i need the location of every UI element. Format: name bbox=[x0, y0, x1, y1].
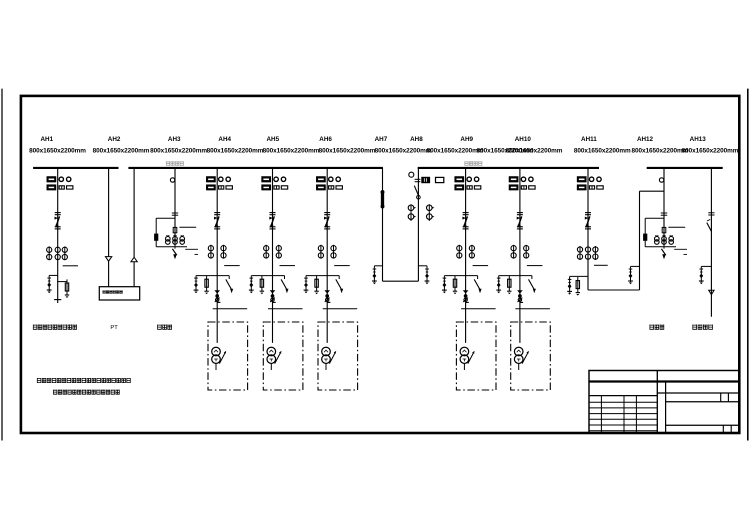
svg-text:800x1650x2200mm: 800x1650x2200mm bbox=[682, 147, 739, 154]
arrester AH1 bbox=[47, 277, 51, 279]
sheet edge left bbox=[1, 89, 3, 441]
panel AH10 feeder wire bbox=[519, 168, 521, 343]
meters AH4 bbox=[207, 177, 216, 182]
PT left fuse bbox=[644, 234, 647, 240]
branch node AH10 bbox=[499, 275, 532, 277]
arrester AH8 bbox=[425, 268, 429, 270]
CT AH1 column a bbox=[48, 246, 50, 260]
panel AH2 right wire bbox=[133, 168, 135, 257]
meters AH1 bbox=[47, 177, 56, 182]
CT AH8 left bbox=[410, 204, 412, 221]
PT label line bbox=[179, 226, 196, 228]
link wire AH11 to AH12 bbox=[588, 289, 640, 291]
lamp AH8 bbox=[409, 172, 414, 177]
label line AH11 bbox=[594, 264, 608, 266]
panel AH5 feeder wire bbox=[272, 168, 274, 343]
transformer AH9 bbox=[460, 347, 469, 356]
PT main fuse bbox=[173, 227, 177, 232]
bus link AH7 bbox=[381, 192, 383, 207]
fuse AH10 bbox=[508, 276, 510, 292]
PT left branch wire bbox=[645, 217, 664, 219]
transformer box AH4 bbox=[208, 322, 248, 390]
PT left fuse bbox=[155, 234, 158, 240]
cable label line AH4 bbox=[213, 308, 248, 310]
branch node AH9 bbox=[444, 275, 477, 277]
svg-text:AH13: AH13 bbox=[690, 136, 707, 143]
svg-text:800x1650x2200mm: 800x1650x2200mm bbox=[319, 147, 376, 154]
disconnect ticks AH13 bbox=[708, 212, 714, 214]
transformer box AH9 bbox=[456, 322, 496, 390]
CT AH11 column c bbox=[594, 246, 596, 260]
panel AH9 feeder wire bbox=[465, 168, 467, 343]
arrester AH9 bbox=[443, 276, 445, 278]
fuse AH11 bbox=[577, 277, 579, 293]
junction AH9 bbox=[464, 295, 467, 298]
CT AH6 left bbox=[320, 245, 322, 259]
cable head AH9 bbox=[463, 290, 469, 293]
meters AH5 bbox=[262, 177, 271, 182]
meters AH9 bbox=[455, 177, 464, 182]
PT bottom wire bbox=[156, 246, 187, 248]
title block narrow column bbox=[665, 382, 667, 434]
CT AH10 left bbox=[513, 245, 515, 259]
arrester AH6 bbox=[305, 276, 307, 278]
earth switch AH9 bbox=[477, 276, 479, 279]
svg-text:AH9: AH9 bbox=[460, 136, 473, 143]
panel AH3 main wire bbox=[174, 168, 176, 245]
cable terminal AH6 bbox=[326, 298, 329, 301]
disconnect ticks AH8 bbox=[415, 178, 421, 180]
junction AH4 bbox=[216, 295, 219, 298]
transformer AH5 bbox=[267, 347, 276, 356]
svg-text:800x1650x2200mm: 800x1650x2200mm bbox=[93, 147, 150, 154]
title block right cells bottom bbox=[722, 425, 724, 433]
meter AH8 b bbox=[436, 177, 444, 182]
label line AH1 bbox=[63, 265, 78, 267]
cable head AH6 bbox=[324, 290, 330, 293]
incoming label AH1 bbox=[33, 325, 77, 330]
junction AH7 bottom bbox=[381, 205, 384, 208]
cable terminal AH10 bbox=[518, 298, 521, 301]
svg-text:800x1650x2200mm: 800x1650x2200mm bbox=[150, 147, 207, 154]
PT earth switch bbox=[663, 245, 665, 249]
svg-text:AH4: AH4 bbox=[218, 136, 231, 143]
CT AH5 right bbox=[278, 245, 280, 259]
panel AH7 riser wire bbox=[382, 168, 384, 281]
label line AH10 bbox=[527, 265, 543, 267]
PT disconnect ticks bbox=[172, 212, 178, 214]
metering box AH2 bbox=[99, 287, 139, 300]
switch blade AH8 bbox=[414, 186, 418, 196]
earth switch AH4 bbox=[228, 276, 230, 279]
label line AH6 bbox=[334, 265, 350, 267]
PT earth marks bbox=[674, 248, 687, 250]
svg-text:AH12: AH12 bbox=[637, 136, 654, 143]
title block right row line 1 bbox=[657, 392, 739, 394]
panel AH4 feeder wire bbox=[216, 168, 218, 343]
note line 1 bbox=[37, 378, 130, 383]
PT coils bbox=[655, 237, 660, 242]
CT AH5 left bbox=[265, 245, 267, 259]
note line 2 bbox=[53, 390, 119, 395]
panel AH1 main wire bbox=[57, 168, 59, 303]
drawing frame bbox=[21, 96, 739, 433]
meters AH10 bbox=[509, 177, 518, 182]
svg-text:800x1650x2200mm: 800x1650x2200mm bbox=[263, 147, 320, 154]
svg-text:AH8: AH8 bbox=[410, 136, 423, 143]
branch node AH6 bbox=[306, 275, 339, 277]
fuse branch AH1 bbox=[58, 281, 67, 283]
CT AH10 right bbox=[525, 245, 527, 259]
title block vertical divider bbox=[656, 371, 658, 434]
plug contact AH2 right bbox=[131, 257, 137, 262]
svg-text:AH5: AH5 bbox=[266, 136, 279, 143]
arrester AH10 bbox=[498, 276, 500, 278]
svg-text:800x1650x2200mm: 800x1650x2200mm bbox=[427, 147, 484, 154]
transformer box AH10 bbox=[511, 322, 551, 390]
fuse AH9 bbox=[454, 276, 456, 292]
svg-text:800x1650x2200mm: 800x1650x2200mm bbox=[207, 147, 264, 154]
label line AH5 bbox=[280, 265, 296, 267]
label AH13 bbox=[693, 325, 713, 330]
title block outer bbox=[589, 371, 739, 434]
arrester AH5 bbox=[250, 276, 252, 278]
svg-text:AH1: AH1 bbox=[40, 136, 53, 143]
svg-text:PT: PT bbox=[110, 325, 118, 331]
busbar section I part b bbox=[128, 167, 383, 169]
stub AH8 bbox=[418, 265, 427, 267]
earth switch AH6 bbox=[338, 276, 340, 279]
CT AH1 column c bbox=[64, 246, 66, 260]
branch wire AH1 bbox=[49, 274, 58, 276]
meters AH11 bbox=[577, 177, 586, 182]
title block right cells top bbox=[720, 393, 722, 402]
breaker AH10 bbox=[517, 212, 523, 214]
fuse AH5 bbox=[261, 276, 263, 292]
CT AH6 right bbox=[333, 245, 335, 259]
stub AH7 bbox=[374, 265, 382, 267]
earth switch AH10 bbox=[531, 276, 533, 279]
fuse AH4 bbox=[206, 276, 208, 292]
CT AH9 left bbox=[458, 245, 460, 259]
PT disconnect ticks bbox=[661, 212, 667, 214]
breaker AH11 bbox=[585, 212, 591, 214]
metering box text AH2 bbox=[103, 290, 123, 293]
branch node AH5 bbox=[251, 275, 284, 277]
title block left table rows bbox=[589, 401, 657, 403]
earth switch AH5 bbox=[284, 276, 286, 279]
CT AH4 right bbox=[223, 245, 225, 259]
tie wire AH7-AH8 bbox=[383, 280, 419, 282]
svg-text:AH2: AH2 bbox=[108, 136, 121, 143]
earth ball AH3 bbox=[170, 178, 174, 182]
cable head AH13 bbox=[709, 290, 714, 294]
cable label line AH5 bbox=[268, 308, 303, 310]
bus label 1 (gray) bbox=[166, 161, 183, 165]
title block left table columns bbox=[600, 396, 602, 433]
junction AH5 bbox=[271, 295, 274, 298]
label line AH9 bbox=[473, 265, 489, 267]
CT AH1 column b bbox=[55, 247, 60, 252]
cable head AH5 bbox=[270, 290, 276, 293]
label AH3 bbox=[157, 325, 171, 330]
svg-text:800x1650x2200mm: 800x1650x2200mm bbox=[631, 147, 688, 154]
PT left branch wire bbox=[156, 217, 175, 219]
arrester AH13 bbox=[700, 268, 704, 270]
svg-text:AH11: AH11 bbox=[581, 136, 597, 143]
title block right row line 3 bbox=[666, 424, 740, 426]
busbar section I part a bbox=[33, 167, 118, 169]
title block left table top bbox=[589, 395, 657, 397]
svg-text:800x1650x2200mm: 800x1650x2200mm bbox=[375, 147, 432, 154]
svg-text:AH10: AH10 bbox=[515, 136, 532, 143]
meter AH8 a bbox=[422, 177, 430, 182]
PT main fuse bbox=[662, 227, 666, 232]
arrester AH12 riser bbox=[629, 268, 633, 270]
CT AH4 left bbox=[210, 245, 212, 259]
breaker AH1 bbox=[55, 212, 61, 214]
panel AH11 main wire bbox=[587, 168, 589, 290]
earth ball AH12 bbox=[659, 178, 663, 182]
cable head AH10 bbox=[517, 290, 523, 293]
junction AH6 bbox=[326, 295, 329, 298]
stub AH13 bbox=[701, 265, 711, 267]
arrester AH4 bbox=[195, 276, 197, 278]
breaker AH4 bbox=[214, 212, 220, 214]
PT label line bbox=[668, 226, 685, 228]
CT AH11 column a bbox=[579, 246, 581, 260]
breaker AH9 bbox=[463, 212, 469, 214]
PT bottom wire bbox=[645, 246, 676, 248]
panel AH2 left wire bbox=[108, 168, 110, 257]
cable label line AH9 bbox=[461, 308, 496, 310]
PT earth marks bbox=[185, 248, 198, 250]
transformer AH10 bbox=[514, 347, 523, 356]
panel AH13 main wire bbox=[710, 168, 712, 317]
svg-text:AH6: AH6 bbox=[319, 136, 332, 143]
branch node AH4 bbox=[196, 275, 229, 277]
transformer box AH6 bbox=[318, 322, 358, 390]
panel AH6 feeder wire bbox=[326, 168, 328, 343]
PT earth switch bbox=[174, 245, 176, 249]
label line AH4 bbox=[224, 265, 240, 267]
cable label line AH6 bbox=[323, 308, 358, 310]
transformer box AH5 bbox=[263, 322, 303, 390]
plug contact AH2 left bbox=[105, 257, 111, 262]
breaker AH6 bbox=[324, 212, 330, 214]
panel AH12 main wire bbox=[663, 168, 665, 245]
busbar section III bbox=[647, 167, 723, 169]
cable terminal AH9 bbox=[464, 298, 467, 301]
cable head AH4 bbox=[214, 290, 220, 293]
cable terminal AH4 bbox=[216, 298, 219, 301]
svg-text:800x1650x2200mm: 800x1650x2200mm bbox=[574, 147, 631, 154]
branch wire AH11 bbox=[570, 275, 588, 277]
transformer AH6 bbox=[322, 347, 331, 356]
panel AH8 main wire bbox=[417, 168, 419, 281]
fuse AH6 bbox=[316, 276, 318, 292]
breaker AH5 bbox=[270, 212, 276, 214]
meters AH6 bbox=[317, 177, 326, 182]
svg-text:800x1650x2200mm: 800x1650x2200mm bbox=[29, 147, 86, 154]
CT AH9 right bbox=[471, 245, 473, 259]
svg-text:AH3: AH3 bbox=[168, 136, 181, 143]
busbar section II bbox=[418, 167, 599, 169]
sheet edge right bbox=[747, 89, 749, 441]
CT AH11 column b bbox=[585, 247, 590, 252]
PT coils bbox=[166, 237, 171, 242]
switch blade AH13 bbox=[707, 223, 712, 232]
arrester AH11 bbox=[568, 278, 572, 280]
junction AH7 top bbox=[381, 191, 384, 194]
arrester AH7 bbox=[373, 268, 377, 270]
cable terminal AH5 bbox=[271, 298, 274, 301]
CT AH8 right bbox=[428, 204, 430, 221]
svg-text:AH7: AH7 bbox=[375, 136, 388, 143]
label AH12 bbox=[650, 325, 664, 330]
bus label 2 (gray) bbox=[465, 161, 482, 165]
title block right row line 2 bbox=[666, 401, 740, 403]
junction AH10 bbox=[519, 295, 522, 298]
transformer AH4 bbox=[212, 347, 221, 356]
cable label line AH10 bbox=[515, 308, 550, 310]
title block thick divider bbox=[589, 380, 739, 382]
cable mark AH1 bbox=[54, 299, 61, 301]
svg-text:800x1650x2200mm: 800x1650x2200mm bbox=[506, 147, 563, 154]
stub AH12 riser bbox=[631, 265, 640, 267]
